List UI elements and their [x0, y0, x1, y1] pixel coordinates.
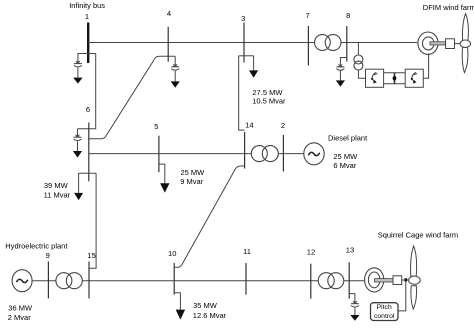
pitch control box [371, 303, 399, 321]
DFIM turbine hub [460, 40, 470, 47]
transformer T4 (bus12-bus13) [318, 273, 344, 289]
converter 2 symbol [411, 72, 417, 83]
shunt capacitor at bus 6 [74, 129, 82, 151]
svg-text:12: 12 [307, 247, 315, 256]
svg-text:Pitch: Pitch [377, 304, 392, 311]
SCIG turbine blade up [411, 246, 417, 276]
load stem bus 3 [253, 56, 255, 71]
svg-text:25 MW: 25 MW [333, 152, 358, 161]
pitch junction [405, 278, 408, 281]
svg-text:13: 13 [346, 245, 354, 254]
wire bus8 shunt stub [340, 58, 346, 67]
SCIG shaft 2 [402, 279, 409, 281]
bus 11 [245, 263, 247, 295]
svg-text:control: control [374, 313, 395, 320]
bus 8 [346, 26, 348, 62]
bus 10 [173, 263, 175, 295]
wire line 10-14 (diagonal) [174, 166, 244, 267]
svg-text:10.5 Mvar: 10.5 Mvar [252, 97, 286, 106]
DC link capacitor [393, 73, 397, 84]
converter 2 (rotor side) box [405, 69, 423, 87]
shunt capacitor at bus 8 [336, 65, 344, 81]
wire line 4-6 (diagonal) [89, 56, 175, 139]
bus 6 [88, 123, 90, 182]
shunt capacitor at bus 1 [74, 61, 82, 77]
wire bus1 shunt stub [78, 54, 96, 63]
svg-text:14: 14 [245, 121, 253, 130]
diesel generator G (circle with ~) [304, 143, 324, 165]
svg-text:Squirrel Cage wind farm: Squirrel Cage wind farm [378, 231, 458, 240]
wire bus6 load stub [79, 173, 97, 193]
load arrow bus 10 (35 MW) [176, 310, 185, 320]
converter 1 symbol [371, 72, 377, 83]
DFIM shaft 2 [455, 43, 462, 45]
shunt arrow at bus 4 [171, 81, 180, 87]
SCIG generator (double circle) [365, 268, 384, 292]
bus 3 [243, 23, 245, 63]
bus5 load stub [159, 164, 165, 183]
wire mid row bus6-bus5-bus14 (line 6-5, 5-14) [89, 153, 252, 155]
svg-text:DFIM wind farm: DFIM wind farm [423, 3, 474, 12]
bus 14 [244, 132, 246, 169]
SCIG turbine hub [409, 276, 421, 284]
bus 9 [47, 262, 49, 299]
wire converter 2 to DFIM rotor [423, 53, 428, 78]
DFIM turbine blade down [462, 47, 468, 72]
transformer T2 (bus14-bus2) [251, 146, 278, 162]
svg-text:12.6 Mvar: 12.6 Mvar [193, 311, 227, 320]
svg-text:5: 5 [154, 122, 158, 131]
svg-text:2 Mvar: 2 Mvar [8, 313, 31, 322]
wire bus3 lower stub [239, 55, 254, 57]
shunt arrow at bus 13 [350, 315, 359, 321]
wire transformer to converter 1 [358, 70, 365, 78]
wire top row bus1-bus4-bus3-bus7 (line 1-3) [88, 42, 314, 44]
DFIM generator (double circle) [418, 32, 438, 54]
wire bus13 shunt stub [349, 294, 355, 303]
bus 15 [88, 262, 90, 299]
wire bus1 to bus6 (line 1-6) [78, 54, 96, 129]
svg-text:4: 4 [167, 9, 171, 18]
transformer T3 (bus9-bus15) [56, 273, 82, 289]
svg-text:6 Mvar: 6 Mvar [333, 161, 356, 170]
svg-text:Diesel plant: Diesel plant [328, 134, 368, 143]
wire T2 to bus2 to diesel [278, 153, 303, 155]
bus 5 [158, 136, 160, 173]
shunt arrow at bus 8 [336, 80, 345, 86]
svg-text:39 MW: 39 MW [44, 181, 69, 190]
svg-text:Hydroelectric plant: Hydroelectric plant [5, 242, 68, 251]
SCIG shaft [375, 279, 393, 282]
SCIG turbine blade down [411, 286, 417, 310]
svg-text:7: 7 [305, 11, 309, 20]
wire bus6 to bus15 (line 6-15) [89, 173, 96, 268]
transformer T5 (DFIM rotor branch) [354, 55, 363, 70]
svg-text:10: 10 [168, 249, 176, 258]
wire hydro to bus9 to T3 [32, 280, 56, 282]
bus 4 [167, 27, 169, 62]
svg-text:25 MW: 25 MW [181, 168, 206, 177]
wire T4 to bus13 to SCIG [344, 280, 364, 282]
DC link rails [384, 73, 406, 84]
load arrow bus 3 (27.5 MW) [249, 70, 258, 77]
svg-text:9: 9 [46, 251, 50, 260]
converter 1 (grid side) box [366, 69, 384, 87]
wire top row bus8 to DFIM stator [341, 42, 417, 44]
load arrow bus 5 (25 MW) [160, 183, 169, 192]
wire pitch control to shaft [398, 282, 406, 311]
DFIM turbine blade up [462, 14, 468, 41]
bus 13 [348, 262, 350, 299]
transformer T1 (bus7-bus8) [315, 35, 342, 51]
svg-text:8: 8 [346, 11, 350, 20]
svg-text:35 MW: 35 MW [193, 301, 218, 310]
wire bus3 to bus14 (line 3-14) [239, 56, 245, 130]
svg-text:1: 1 [85, 12, 89, 21]
bus 1 (infinity bus, thick bar) [87, 23, 89, 64]
load arrow at bus 1 [73, 78, 82, 84]
bus 2 [282, 135, 284, 172]
DFIM shaft [430, 42, 446, 45]
bus10 load stub [174, 293, 180, 310]
svg-text:Infinity bus: Infinity bus [69, 1, 105, 10]
svg-text:15: 15 [87, 251, 95, 260]
bus 7 [307, 26, 309, 66]
shunt capacitor at bus 13 [351, 301, 359, 315]
bus 12 [310, 264, 312, 299]
svg-text:2: 2 [281, 121, 285, 130]
svg-text:11: 11 [243, 247, 251, 256]
svg-text:3: 3 [241, 14, 245, 23]
svg-text:36 MW: 36 MW [8, 304, 33, 313]
wire bottom row T3-bus15-bus10-bus11-bus12 [82, 280, 318, 282]
shunt capacitor at bus 4 [171, 56, 179, 81]
DFIM gearbox [446, 39, 455, 49]
svg-text:11 Mvar: 11 Mvar [44, 191, 71, 200]
load arrow bus 6 (39 MW) [74, 193, 83, 200]
wire tap to DFIM transformer [357, 43, 359, 56]
SCIG gearbox [393, 276, 402, 285]
hydro generator G (circle with ~) [12, 270, 32, 292]
svg-text:6: 6 [86, 105, 90, 114]
shunt arrow at bus 6 [73, 151, 82, 158]
svg-text:9 Mvar: 9 Mvar [180, 177, 203, 186]
